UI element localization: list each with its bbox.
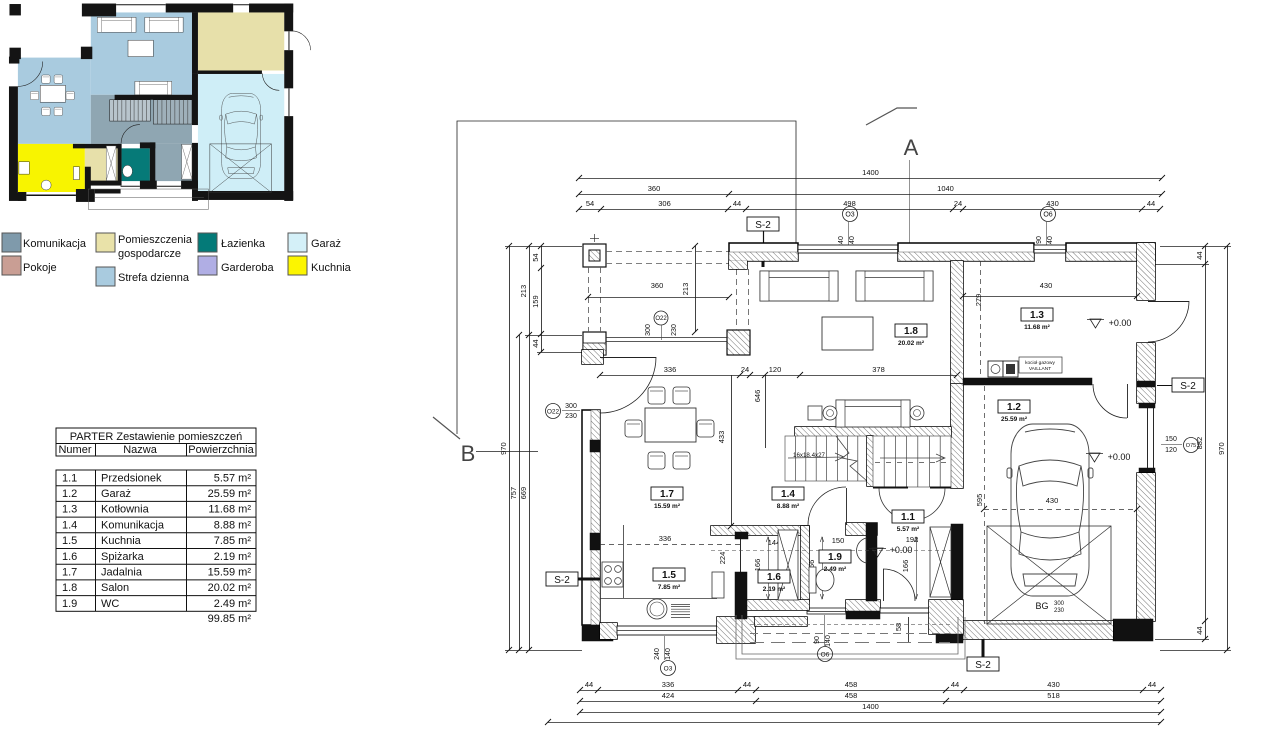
boiler label xyxy=(1019,357,1062,373)
mini wardrobes xyxy=(106,146,116,181)
window label O22 left xyxy=(546,404,561,419)
room label 1.9 wc xyxy=(819,550,851,563)
svg-text:458: 458 xyxy=(845,691,858,700)
porch outline xyxy=(742,615,958,654)
svg-text:5.57 m²: 5.57 m² xyxy=(897,526,920,533)
mini kitchen xyxy=(19,162,29,174)
svg-text:Spiżarka: Spiżarka xyxy=(101,551,145,563)
svg-text:433: 433 xyxy=(717,431,726,444)
svg-text:PARTER Zestawienie pomieszczeń: PARTER Zestawienie pomieszczeń xyxy=(70,431,243,443)
wardrobe 1.1 xyxy=(930,527,951,597)
room label 1.1 xyxy=(892,510,924,523)
garage door zone X xyxy=(987,526,1111,624)
svg-text:1400: 1400 xyxy=(862,702,879,711)
svg-text:S-2: S-2 xyxy=(755,220,771,231)
svg-text:300: 300 xyxy=(1054,601,1065,607)
room label 1.5 kuchnia xyxy=(653,568,685,581)
svg-text:Komunikacja: Komunikacja xyxy=(101,519,165,531)
svg-text:360: 360 xyxy=(648,184,661,193)
svg-text:VAILLANT: VAILLANT xyxy=(1029,366,1051,372)
svg-text:20.02 m²: 20.02 m² xyxy=(898,340,925,347)
stairs left run xyxy=(785,436,867,481)
kitchen wall block xyxy=(735,572,747,619)
door 1.3 to garage xyxy=(1127,384,1129,418)
section mark A xyxy=(866,108,917,125)
garage right wall xyxy=(1137,473,1155,621)
door 1.4/kitchen arc xyxy=(846,488,848,525)
svg-text:44: 44 xyxy=(733,199,741,208)
left bottom corner xyxy=(582,625,613,641)
svg-text:1.5: 1.5 xyxy=(62,535,77,547)
svg-text:1040: 1040 xyxy=(937,184,954,193)
svg-text:99.85 m²: 99.85 m² xyxy=(208,613,252,625)
svg-text:458: 458 xyxy=(845,680,858,689)
svg-text:11.68 m²: 11.68 m² xyxy=(1024,324,1050,331)
svg-text:+0.00: +0.00 xyxy=(1108,452,1131,462)
svg-text:140: 140 xyxy=(825,635,832,647)
dining table xyxy=(645,408,696,442)
side table round left xyxy=(823,406,837,420)
svg-text:120: 120 xyxy=(769,365,782,374)
mini interior walls xyxy=(192,12,198,73)
svg-text:1.6: 1.6 xyxy=(62,551,77,563)
left dimension line 213/669 xyxy=(529,246,531,650)
top wall segment right xyxy=(1066,243,1155,261)
svg-text:1.4: 1.4 xyxy=(62,519,77,531)
svg-text:300: 300 xyxy=(645,324,652,336)
svg-text:Garaż: Garaż xyxy=(101,488,131,500)
side table square xyxy=(808,406,822,420)
washer kotlownia xyxy=(988,361,1003,377)
svg-text:S-2: S-2 xyxy=(554,575,570,586)
svg-text:166: 166 xyxy=(901,560,910,573)
svg-text:+0.00: +0.00 xyxy=(1109,318,1132,328)
mini door arcs xyxy=(18,62,43,87)
svg-text:24: 24 xyxy=(954,199,962,208)
section mark B xyxy=(433,417,460,439)
entry window xyxy=(807,608,846,614)
svg-text:150: 150 xyxy=(832,536,845,545)
svg-text:2.49 m²: 2.49 m² xyxy=(824,566,847,573)
svg-text:Łazienka: Łazienka xyxy=(221,238,266,250)
top wall segment mid xyxy=(898,243,1034,261)
svg-text:430: 430 xyxy=(1040,281,1053,290)
svg-text:gospodarcze: gospodarcze xyxy=(118,248,181,260)
side table round right xyxy=(910,406,924,420)
svg-text:Salon: Salon xyxy=(101,582,129,594)
wall 1.1/garage xyxy=(951,601,963,641)
svg-text:44: 44 xyxy=(585,680,593,689)
svg-text:25.59 m²: 25.59 m² xyxy=(1001,416,1028,423)
interior wall above 1.1 xyxy=(846,523,877,535)
svg-text:Garderoba: Garderoba xyxy=(221,262,274,274)
mini plan walls xyxy=(82,4,116,17)
room label 1.3 xyxy=(1021,308,1053,321)
svg-text:1.6: 1.6 xyxy=(767,572,781,583)
window label O22 mid xyxy=(654,311,668,325)
rooms table header xyxy=(56,428,256,456)
mini car xyxy=(220,93,263,178)
svg-text:5.57 m²: 5.57 m² xyxy=(214,472,252,484)
svg-text:44: 44 xyxy=(1195,626,1204,634)
dim 430 1.3 xyxy=(963,296,1137,298)
svg-text:BG: BG xyxy=(1035,601,1048,611)
right wall segment xyxy=(1137,343,1155,403)
svg-text:20.02 m²: 20.02 m² xyxy=(208,582,252,594)
svg-text:669: 669 xyxy=(519,487,528,500)
svg-text:7.85 m²: 7.85 m² xyxy=(214,535,252,547)
kitchen bottom wall xyxy=(600,623,617,639)
svg-text:Pokoje: Pokoje xyxy=(23,262,57,274)
kitchen stove xyxy=(602,562,623,587)
mini wc xyxy=(123,165,133,177)
stairs divider wall xyxy=(867,436,873,486)
svg-text:595: 595 xyxy=(975,494,984,507)
dim 646 vertical xyxy=(765,375,767,448)
svg-text:1.3: 1.3 xyxy=(1030,310,1044,321)
svg-text:2.19 m²: 2.19 m² xyxy=(763,586,786,593)
svg-text:54: 54 xyxy=(586,199,594,208)
wall below 1.9 xyxy=(846,600,880,612)
door kotlownia exterior xyxy=(1148,301,1189,303)
wall below 1.6 xyxy=(740,600,809,610)
svg-text:300: 300 xyxy=(565,403,577,410)
room label 1.7 jadalnia xyxy=(651,487,683,500)
svg-text:166: 166 xyxy=(753,559,762,572)
mini furniture salon xyxy=(97,17,136,32)
svg-text:230: 230 xyxy=(565,413,577,420)
svg-text:336: 336 xyxy=(664,365,677,374)
svg-text:240: 240 xyxy=(654,648,661,660)
room label 1.2 garage xyxy=(998,400,1030,413)
window O6 top wall xyxy=(1034,245,1066,253)
door 1.1 arc xyxy=(883,569,885,601)
top dimension line 54/306/44/498/24/430/44 xyxy=(579,209,1160,211)
svg-text:Nazwa: Nazwa xyxy=(123,444,158,456)
svg-text:336: 336 xyxy=(662,680,675,689)
svg-text:Garaż: Garaż xyxy=(311,238,341,250)
svg-text:1.8: 1.8 xyxy=(904,326,918,337)
svg-text:B: B xyxy=(461,441,476,466)
interior wall above 1.6 xyxy=(711,526,809,535)
svg-text:518: 518 xyxy=(1047,691,1060,700)
kitchen sink xyxy=(647,599,667,619)
mini garage X zone xyxy=(210,144,272,193)
svg-text:44: 44 xyxy=(1148,680,1156,689)
svg-text:430: 430 xyxy=(1047,680,1060,689)
svg-text:8.88 m²: 8.88 m² xyxy=(214,519,252,531)
terrace dim 213 vertical xyxy=(695,246,697,332)
svg-text:279: 279 xyxy=(974,294,983,307)
window O75 right wall xyxy=(1139,403,1155,408)
wc sink xyxy=(857,538,866,563)
window label O3 top xyxy=(843,207,858,222)
room label 1.6 xyxy=(758,570,790,583)
svg-text:1.4: 1.4 xyxy=(781,489,795,500)
svg-text:Jadalnia: Jadalnia xyxy=(101,567,143,579)
label S-2 bottom xyxy=(967,657,999,671)
kitchen counter xyxy=(623,525,625,598)
svg-text:44: 44 xyxy=(1147,199,1155,208)
sofa 3 lower xyxy=(836,400,910,427)
svg-text:1.1: 1.1 xyxy=(901,512,915,523)
kitchen fridge xyxy=(712,572,724,598)
svg-text:970: 970 xyxy=(499,442,508,455)
svg-text:1.9: 1.9 xyxy=(828,552,842,563)
terrace dim 360 xyxy=(588,297,729,299)
terrace door jadalnia xyxy=(600,357,656,359)
right dimension line 44/882/44 xyxy=(1205,246,1207,639)
terrace dashed outline xyxy=(606,251,796,253)
svg-text:+0.00: +0.00 xyxy=(890,545,913,555)
svg-text:120: 120 xyxy=(1165,447,1177,454)
level mark entrance xyxy=(872,548,883,557)
svg-text:424: 424 xyxy=(662,691,675,700)
sofa 1 salon xyxy=(760,271,838,301)
svg-text:150: 150 xyxy=(1165,436,1177,443)
svg-text:1.2: 1.2 xyxy=(1007,402,1021,413)
svg-text:159: 159 xyxy=(531,295,540,308)
svg-text:224: 224 xyxy=(718,552,727,565)
svg-text:1.8: 1.8 xyxy=(62,582,77,594)
top dimension line 360/1040 xyxy=(579,194,1162,196)
svg-text:O22: O22 xyxy=(547,408,560,415)
stairs bottom edge xyxy=(873,487,908,489)
svg-text:140: 140 xyxy=(665,648,672,660)
svg-text:O3: O3 xyxy=(845,211,854,218)
dim 336 kitchen dashed xyxy=(600,544,740,546)
car in garage xyxy=(1007,424,1093,596)
svg-text:WC: WC xyxy=(101,598,119,610)
kitchen window O3 xyxy=(617,626,717,635)
stairs right run xyxy=(873,436,951,487)
terrace column mid-right xyxy=(727,330,750,355)
svg-text:Przedsionek: Przedsionek xyxy=(101,472,162,484)
svg-text:O6: O6 xyxy=(821,651,830,658)
wall salon/stairs xyxy=(795,427,951,437)
rooms table body xyxy=(56,470,256,611)
svg-text:1.1: 1.1 xyxy=(62,472,77,484)
svg-text:2.49 m²: 2.49 m² xyxy=(214,598,252,610)
left wall corner block xyxy=(582,350,603,364)
level mark 1.3 xyxy=(1090,319,1101,328)
svg-text:58: 58 xyxy=(894,623,903,631)
svg-text:90: 90 xyxy=(814,636,821,644)
entrance door xyxy=(880,608,929,613)
svg-text:54: 54 xyxy=(531,253,540,261)
svg-text:2.19 m²: 2.19 m² xyxy=(214,551,252,563)
label S-2 top xyxy=(747,217,779,231)
svg-text:A: A xyxy=(904,135,919,160)
svg-text:15.59 m²: 15.59 m² xyxy=(654,503,681,510)
svg-text:1400: 1400 xyxy=(862,168,879,177)
left outer wall xyxy=(582,410,600,625)
svg-text:S-2: S-2 xyxy=(975,660,991,671)
svg-text:O22: O22 xyxy=(655,316,667,322)
svg-text:970: 970 xyxy=(1217,442,1226,455)
svg-text:8.88 m²: 8.88 m² xyxy=(777,503,800,510)
svg-text:213: 213 xyxy=(681,283,690,296)
svg-text:O75: O75 xyxy=(1186,443,1196,449)
left dimension line 54/159/44 xyxy=(541,246,543,352)
svg-text:336: 336 xyxy=(659,534,672,543)
stairs left arrow xyxy=(788,453,844,461)
top wall S-2 segment xyxy=(729,243,798,269)
svg-text:90: 90 xyxy=(1036,236,1043,244)
svg-text:Pomieszczenia: Pomieszczenia xyxy=(118,234,193,246)
garage left wall upper xyxy=(951,384,963,488)
svg-text:360: 360 xyxy=(651,281,664,290)
label S-2 right xyxy=(1172,378,1204,392)
mini dining table xyxy=(40,85,65,102)
terrace edge double line xyxy=(606,337,727,339)
section box upper-left of plan xyxy=(457,121,796,434)
svg-text:44: 44 xyxy=(1195,251,1204,259)
dim 279 vertical 1.3 xyxy=(980,261,982,378)
sofa 2 salon xyxy=(856,271,933,301)
bottom dim line row2 xyxy=(580,701,1161,703)
svg-text:O3: O3 xyxy=(664,665,673,672)
dim 430 garage xyxy=(984,509,1137,511)
room label 1.4 xyxy=(772,487,804,500)
stairs break line xyxy=(836,436,867,481)
svg-text:306: 306 xyxy=(658,199,671,208)
left dimension line 970 xyxy=(509,246,511,650)
svg-text:Kuchnia: Kuchnia xyxy=(101,535,142,547)
svg-text:1.9: 1.9 xyxy=(62,598,77,610)
wardrobe 1.6 xyxy=(778,530,798,600)
svg-text:1.3: 1.3 xyxy=(62,504,77,516)
svg-text:Powierzchnia: Powierzchnia xyxy=(188,444,254,456)
bottom section line xyxy=(548,722,1161,724)
svg-text:11.68 m²: 11.68 m² xyxy=(208,504,251,516)
svg-text:1.7: 1.7 xyxy=(62,567,77,579)
left dim connector lines xyxy=(505,246,582,248)
wall right of entrance xyxy=(929,600,963,634)
svg-text:1.2: 1.2 xyxy=(62,488,77,500)
svg-text:7.85 m²: 7.85 m² xyxy=(658,584,681,591)
salon dim 24/120/378 xyxy=(600,375,957,377)
interior wall salon/1.3 xyxy=(951,261,963,384)
right dimension line 970 xyxy=(1227,246,1229,650)
mini porch xyxy=(88,189,208,209)
svg-text:Numer: Numer xyxy=(58,444,91,456)
svg-text:kocioł gazowy: kocioł gazowy xyxy=(1025,360,1055,366)
garage bottom wall xyxy=(963,621,1113,639)
dim 433 vertical xyxy=(731,375,733,526)
stairs double door arcs xyxy=(879,488,911,520)
svg-text:Kuchnia: Kuchnia xyxy=(311,262,352,274)
terrace column top-left xyxy=(583,244,606,267)
svg-text:44: 44 xyxy=(951,680,959,689)
svg-text:430: 430 xyxy=(1046,496,1059,505)
dim 595 garage xyxy=(984,386,986,624)
svg-text:882: 882 xyxy=(1195,437,1204,450)
bottom dim line row3 1400 xyxy=(580,712,1161,714)
svg-text:44: 44 xyxy=(743,680,751,689)
svg-text:24: 24 xyxy=(741,365,749,374)
wall 1.6/1.9 xyxy=(801,526,809,601)
svg-text:25.59 m²: 25.59 m² xyxy=(208,488,252,500)
svg-text:15.59 m²: 15.59 m² xyxy=(208,567,252,579)
mini stairs xyxy=(110,100,151,121)
wall 1.3/garage thin xyxy=(963,378,1092,385)
right wall upper corner xyxy=(1137,243,1155,300)
terrace column mid-left xyxy=(583,332,606,355)
svg-text:Strefa dzienna: Strefa dzienna xyxy=(118,272,190,284)
window O3 top wall xyxy=(798,245,898,253)
wall 1.9/1.1 xyxy=(866,523,877,601)
level mark garage xyxy=(1089,453,1100,462)
svg-text:1.5: 1.5 xyxy=(662,570,676,581)
svg-text:S-2: S-2 xyxy=(1180,381,1196,392)
legend xyxy=(2,233,21,252)
dim dashed 144/150/192 line xyxy=(711,550,951,552)
svg-text:230: 230 xyxy=(671,324,678,336)
svg-text:646: 646 xyxy=(753,390,762,403)
svg-text:757: 757 xyxy=(509,487,518,500)
room label 1.8 salon xyxy=(895,324,927,337)
wc toilet xyxy=(809,567,816,593)
stairs right arrow xyxy=(880,454,945,462)
label S-2 left xyxy=(546,572,578,586)
garage bottom-right corner xyxy=(1113,619,1153,641)
mini plan room fills xyxy=(91,12,192,94)
coffee table xyxy=(822,317,873,350)
svg-text:378: 378 xyxy=(872,365,885,374)
left dimension line 757 xyxy=(519,335,521,650)
svg-text:1.7: 1.7 xyxy=(660,489,674,500)
top dimension line 1400 xyxy=(579,178,1162,180)
svg-text:Kotłownia: Kotłownia xyxy=(101,504,150,516)
svg-text:Komunikacja: Komunikacja xyxy=(23,238,87,250)
bottom dim line row1 xyxy=(580,690,1161,692)
svg-text:213: 213 xyxy=(519,285,528,298)
svg-text:O6: O6 xyxy=(1043,211,1052,218)
bottom wall corner step xyxy=(717,617,755,643)
svg-text:44: 44 xyxy=(531,339,540,347)
svg-text:230: 230 xyxy=(1054,608,1065,614)
window label O6 top xyxy=(1041,207,1056,222)
